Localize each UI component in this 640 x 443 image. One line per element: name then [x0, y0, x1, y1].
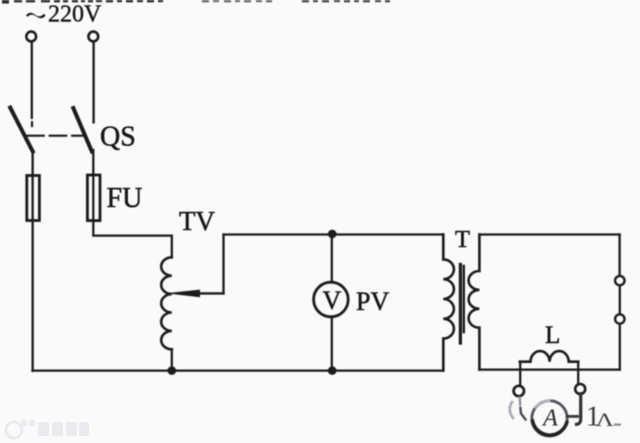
voltmeter PV circle [314, 282, 349, 317]
svg-text:FU: FU [107, 183, 143, 214]
inductor L [520, 351, 578, 362]
wire switch2 through fuse2 to TV top [93, 150, 172, 257]
wire TV bottom to rail [171, 349, 173, 370]
L right drop wire [577, 362, 579, 385]
T core line 2 [463, 266, 465, 332]
svg-text:QS: QS [100, 122, 136, 153]
wiper riser wire [222, 235, 224, 294]
L left drop wire [519, 362, 521, 386]
transformer T primary winding [443, 235, 454, 371]
transformer T secondary winding [469, 235, 480, 370]
autotransformer TV winding [161, 257, 172, 349]
test terminal left [514, 386, 524, 396]
QS mechanical link (dashed) [27, 135, 85, 137]
secondary loop top wire [479, 233, 619, 235]
bottom rail primary side [33, 369, 444, 371]
fuse FU pole2 [87, 175, 100, 221]
wire ammeter to right lead [567, 415, 577, 418]
right terminal lower [615, 314, 624, 323]
node top of PV [328, 230, 337, 239]
svg-text:T: T [455, 226, 470, 253]
terminal L-in [26, 32, 36, 42]
node bottom of PV [328, 366, 337, 375]
wire right terminal down [577, 394, 581, 425]
svg-text:A: A [541, 405, 558, 431]
svg-text:PV: PV [356, 287, 389, 316]
test terminal right [575, 384, 585, 394]
TV wiper arrow [196, 292, 224, 294]
secondary bottom wire [479, 368, 619, 370]
switch QS pole 1 blade [10, 108, 33, 152]
wire left terminal to ammeter [519, 398, 522, 406]
wire voltmeter to bottom rail [331, 317, 333, 371]
T core line 1 [459, 265, 462, 344]
right wire lower [619, 324, 621, 370]
cut-off text remnants along top edge [2, 0, 390, 4]
watermark smudge left of ammeter [510, 402, 513, 418]
degraded label PA remnants [586, 401, 621, 433]
wire from left terminal [31, 42, 33, 118]
svg-text:V: V [323, 286, 342, 315]
watermark bottom-left (decorative) [6, 420, 89, 438]
node bottom of TV [168, 366, 177, 375]
terminal N-in [88, 32, 98, 42]
ammeter PA circle [532, 401, 567, 436]
label ~220V [26, 2, 102, 28]
top rail wiper to transformer T [224, 233, 444, 235]
wire from right terminal [92, 42, 94, 122]
right terminal upper [615, 276, 624, 285]
wire switch1 through fuse1 to bottom rail [31, 150, 33, 371]
svg-text:L: L [545, 322, 560, 349]
svg-text:220V: 220V [48, 2, 102, 28]
right wire middle [619, 285, 621, 314]
secondary right wire upper [618, 235, 620, 276]
switch QS pole 2 blade [73, 108, 92, 151]
svg-text:TV: TV [179, 206, 215, 236]
dashed contact gap marks pole1 [31, 122, 33, 126]
svg-text:Λ: Λ [596, 410, 614, 431]
wire node to voltmeter [331, 234, 333, 282]
fuse FU pole1 [27, 176, 40, 221]
